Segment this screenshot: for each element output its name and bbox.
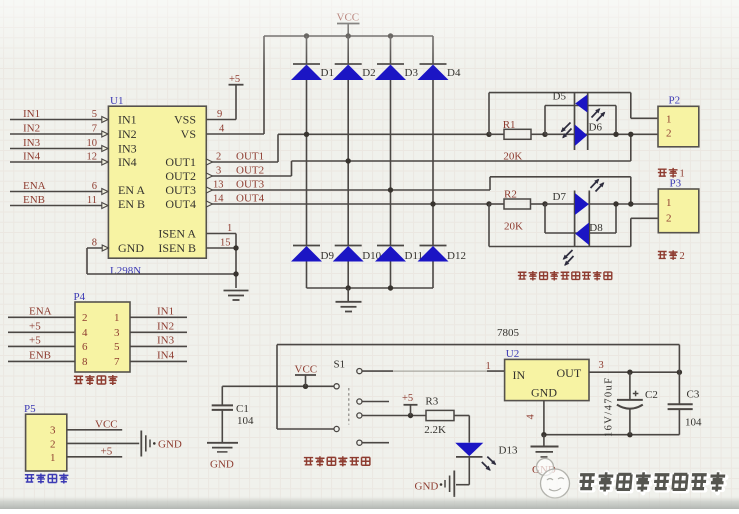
- watermark logo: [537, 459, 554, 476]
- wire segment: [292, 160, 631, 162]
- connector P2: [658, 106, 699, 147]
- wire switch stub: [362, 442, 389, 444]
- svg-text:D12: D12: [447, 250, 466, 262]
- svg-text:L298N: L298N: [110, 265, 141, 277]
- svg-text:GND: GND: [531, 386, 557, 400]
- wire D8 branch: [544, 204, 546, 233]
- svg-text:OUT4: OUT4: [236, 193, 265, 205]
- junction U2 gnd: [541, 432, 546, 437]
- wire net ENA: [10, 191, 102, 193]
- wire P2 pin1: [631, 117, 658, 119]
- IC U2 7805: [505, 359, 589, 400]
- svg-text:2: 2: [216, 152, 221, 163]
- wire ISEN B pin15: [206, 247, 236, 249]
- junction R1 right: [542, 132, 547, 137]
- wire P5 pin3 VCC: [67, 429, 122, 431]
- svg-text:7: 7: [114, 356, 120, 368]
- junction OUT1 column D1: [304, 132, 309, 137]
- wire segment: [87, 273, 236, 275]
- switch contact: [334, 384, 339, 389]
- svg-text:ENB: ENB: [29, 350, 51, 362]
- svg-text:3: 3: [114, 327, 120, 339]
- power +5 symbol: [229, 84, 244, 86]
- capacitor C3: [678, 372, 680, 404]
- wire D13 to ground: [468, 457, 470, 485]
- svg-text:6: 6: [82, 341, 88, 353]
- wire switch stub: [362, 401, 389, 403]
- wire segment: [235, 234, 237, 289]
- svg-text:P5: P5: [24, 403, 36, 415]
- watermark text: [580, 476, 596, 490]
- junction OUT2 to P2 pin2: [628, 132, 633, 137]
- wire P4 right pin 3: [130, 331, 187, 333]
- svg-text:P4: P4: [74, 291, 86, 303]
- svg-text:OUT3: OUT3: [236, 179, 265, 191]
- wire D5 branch: [544, 106, 546, 135]
- wire column D1: [306, 36, 308, 64]
- wire net OUT2: [206, 175, 291, 177]
- svg-text:2.2K: 2.2K: [424, 424, 446, 436]
- wire segment: [86, 248, 88, 274]
- svg-text:U2: U2: [506, 348, 519, 360]
- svg-text:S1: S1: [334, 358, 346, 370]
- wire loop down to P3 pin2: [488, 204, 490, 247]
- wire main through LEDs 2: [545, 203, 616, 205]
- connector P4: [75, 302, 130, 372]
- junction bus D1: [304, 33, 309, 38]
- junction R2 right: [542, 201, 547, 206]
- wire segment: [306, 262, 308, 289]
- wire segment: [432, 262, 434, 289]
- junction bus D11: [388, 285, 393, 290]
- wire VCC top bus: [264, 35, 433, 37]
- svg-text:R3: R3: [425, 395, 438, 407]
- svg-text:+5: +5: [29, 335, 41, 347]
- junction bus D2: [346, 33, 351, 38]
- svg-text:EN B: EN B: [118, 197, 145, 211]
- wire switch to U2 IN: [362, 370, 393, 372]
- wire P4 left pin 8: [8, 360, 75, 362]
- svg-text:1: 1: [114, 312, 120, 324]
- svg-text:1: 1: [666, 197, 672, 209]
- ground symbol D13 rotated: [453, 471, 455, 498]
- junction OUT2 column D2: [346, 158, 351, 163]
- junction C2 top: [627, 370, 632, 375]
- plus sign C2: [633, 393, 639, 395]
- svg-text:20K: 20K: [503, 151, 522, 163]
- svg-text:2: 2: [666, 213, 672, 225]
- svg-text:VCC: VCC: [295, 363, 318, 375]
- wire net IN1: [10, 119, 102, 121]
- wire VS pin4 to VCC bus: [206, 133, 264, 135]
- svg-text:R1: R1: [503, 119, 516, 131]
- svg-text:ENA: ENA: [29, 306, 52, 318]
- svg-text:D6: D6: [589, 121, 603, 133]
- svg-text:104: 104: [237, 415, 254, 427]
- wire segment: [432, 80, 434, 246]
- ground symbol U2: [543, 435, 545, 447]
- LED D6: [575, 125, 587, 147]
- svg-text:10: 10: [87, 138, 98, 149]
- wire segment: [390, 262, 392, 289]
- svg-text:IN2: IN2: [157, 321, 174, 333]
- annotation system power: [25, 475, 34, 482]
- LED cathode bars D7 D8: [574, 191, 576, 247]
- svg-text:GND: GND: [118, 241, 144, 255]
- wire main through LEDs: [545, 133, 616, 135]
- resistor R2: [489, 203, 504, 205]
- wire output ground line: [544, 434, 680, 436]
- svg-text:EN A: EN A: [118, 183, 145, 197]
- diode D11: [377, 245, 404, 247]
- svg-text:1: 1: [227, 223, 232, 234]
- wire U2 GND pin4: [543, 401, 545, 435]
- svg-text:2: 2: [680, 251, 685, 262]
- svg-text:IN3: IN3: [118, 142, 137, 156]
- wire P5 pin1 +5: [67, 456, 122, 458]
- junction VCC symbol: [303, 384, 308, 389]
- svg-text:VS: VS: [181, 127, 196, 141]
- wire VCC to switch: [222, 385, 334, 387]
- LED arrows D13: [487, 457, 495, 465]
- resistor R3: [426, 410, 454, 420]
- svg-text:8: 8: [82, 356, 88, 368]
- LED cathode bars D5 D6: [574, 92, 576, 150]
- svg-text:IN3: IN3: [157, 335, 175, 347]
- svg-text:9: 9: [217, 109, 222, 120]
- svg-text:3: 3: [216, 166, 221, 177]
- capacitor C1: [221, 386, 223, 405]
- connector P3: [658, 189, 699, 233]
- svg-text:4: 4: [526, 414, 537, 420]
- svg-text:1: 1: [50, 452, 56, 464]
- ground symbol U1: [224, 290, 249, 292]
- wire net OUT3: [206, 189, 490, 191]
- switch contact: [334, 426, 339, 431]
- pin 10 arrow: [102, 146, 108, 152]
- svg-text:C1: C1: [236, 403, 249, 415]
- wire P4 right pin 1: [130, 316, 187, 318]
- LED arrows D7: [591, 180, 599, 189]
- svg-text:GND: GND: [158, 438, 182, 450]
- junction GND loop: [233, 271, 238, 276]
- wire segment: [490, 176, 631, 178]
- svg-text:3: 3: [50, 424, 56, 436]
- junction C2 bottom: [627, 432, 632, 437]
- svg-text:6: 6: [92, 181, 97, 192]
- LED D5: [575, 95, 587, 113]
- svg-text:GND: GND: [210, 459, 234, 471]
- svg-text:IN2: IN2: [118, 127, 137, 141]
- svg-text:+5: +5: [229, 74, 240, 85]
- svg-text:U1: U1: [110, 95, 123, 107]
- svg-text:2: 2: [82, 312, 88, 324]
- diode D9: [293, 245, 320, 247]
- power VCC symbol: [337, 23, 360, 25]
- svg-text:C2: C2: [645, 389, 658, 401]
- junction D-branch2: [613, 201, 618, 206]
- wire +5 feedback line: [277, 344, 679, 346]
- wire column D3: [390, 36, 392, 64]
- wire U2 OUT: [589, 371, 679, 373]
- svg-text:C3: C3: [687, 388, 700, 400]
- svg-text:4: 4: [82, 327, 88, 339]
- svg-text:ISEN B: ISEN B: [158, 241, 196, 255]
- wire VSS pin9 to +5: [206, 119, 236, 121]
- junction OUT3 to P3 pin1: [628, 201, 633, 206]
- annotation motor2: [658, 251, 667, 258]
- ground symbol P5: [140, 431, 142, 457]
- annotation power select switch: [304, 458, 313, 465]
- svg-text:12: 12: [87, 152, 98, 163]
- wire P4 right pin 5: [130, 345, 187, 347]
- svg-text:3: 3: [599, 360, 604, 371]
- diode D3: [377, 63, 404, 65]
- wire net IN3: [10, 148, 102, 150]
- LED arrows D8: [564, 250, 573, 259]
- junction bus D10: [346, 285, 351, 290]
- svg-text:IN1: IN1: [23, 108, 40, 120]
- svg-text:OUT3: OUT3: [165, 183, 196, 197]
- power VCC symbol 2: [305, 375, 307, 386]
- pin 14 arrow: [206, 201, 212, 207]
- junction +5 rail: [408, 413, 413, 418]
- wire segment: [347, 80, 349, 246]
- wire segment: [235, 85, 237, 120]
- wire column D4: [432, 36, 434, 64]
- svg-text:1: 1: [486, 361, 491, 372]
- svg-text:2: 2: [50, 438, 56, 450]
- pin 5 arrow: [102, 117, 108, 123]
- svg-text:20K: 20K: [504, 221, 523, 233]
- svg-text:5: 5: [92, 109, 97, 120]
- wire P4 left pin 6: [8, 345, 75, 347]
- svg-text:D5: D5: [553, 91, 567, 103]
- wire segment: [277, 134, 279, 162]
- wire P4 left pin 2: [8, 316, 75, 318]
- svg-text:7: 7: [92, 124, 97, 135]
- svg-text:IN1: IN1: [118, 113, 137, 127]
- wire main after LEDs: [616, 203, 658, 205]
- svg-text:13: 13: [213, 180, 224, 191]
- switch linkage dashed: [348, 388, 350, 425]
- junction ISENB: [233, 245, 238, 250]
- svg-text:OUT2: OUT2: [165, 169, 196, 183]
- wire switch to +5 rail: [362, 415, 426, 417]
- pin 11 arrow: [102, 203, 108, 209]
- wire bottom bus: [307, 287, 434, 289]
- svg-text:P2: P2: [669, 95, 681, 107]
- pin 7 arrow: [102, 131, 108, 137]
- svg-text:D9: D9: [321, 250, 335, 262]
- svg-text:4: 4: [219, 124, 225, 135]
- svg-text:11: 11: [87, 195, 97, 206]
- resistor R1: [489, 133, 504, 135]
- capacitor C2 electrolytic: [629, 372, 631, 400]
- LED arrows D6: [592, 109, 600, 118]
- svg-text:IN4: IN4: [118, 155, 137, 169]
- svg-text:16V/470uF: 16V/470uF: [604, 377, 615, 437]
- wire segment: [263, 36, 265, 134]
- IC U1 L298N body: [108, 106, 206, 258]
- wire net OUT1: [206, 161, 278, 163]
- ground symbol C1: [207, 442, 238, 444]
- wire segment: [390, 80, 392, 246]
- wire net ENB: [10, 205, 102, 207]
- svg-text:IN2: IN2: [23, 123, 40, 135]
- diode D2: [335, 63, 362, 65]
- svg-text:OUT2: OUT2: [236, 165, 264, 177]
- svg-text:OUT4: OUT4: [165, 197, 196, 211]
- wire loop up to P2 pin1: [488, 93, 490, 135]
- annotation motor1: [658, 169, 667, 176]
- svg-text:ENB: ENB: [23, 194, 45, 206]
- svg-text:+5: +5: [402, 393, 413, 404]
- svg-text:+5: +5: [29, 321, 41, 333]
- power +5 symbol 2: [410, 405, 412, 416]
- wire net IN4: [10, 161, 102, 163]
- wire GND pin8 of U1: [87, 247, 108, 249]
- svg-text:R2: R2: [504, 188, 517, 200]
- svg-text:2: 2: [666, 128, 672, 140]
- svg-text:7805: 7805: [497, 327, 520, 339]
- pin 13 arrow: [206, 187, 212, 193]
- wire P5 pin2 GND: [67, 442, 139, 444]
- pin 3 arrow: [206, 173, 212, 179]
- pin 2 arrow: [206, 159, 212, 165]
- junction C3 top: [677, 370, 682, 375]
- wire segment: [278, 133, 489, 135]
- wire main after LEDs: [616, 133, 658, 135]
- wire R3 to D13: [468, 416, 470, 443]
- wire segment: [306, 80, 308, 246]
- diode D1: [293, 63, 320, 65]
- wire segment: [291, 161, 293, 176]
- wire column D2: [347, 36, 349, 64]
- wire net IN2: [10, 133, 102, 135]
- diode D4: [420, 63, 447, 65]
- svg-text:P3: P3: [670, 178, 682, 190]
- svg-text:IN3: IN3: [23, 137, 41, 149]
- wire net OUT4: [206, 203, 489, 205]
- svg-text:IN: IN: [513, 368, 526, 382]
- svg-text:5: 5: [114, 341, 120, 353]
- LED D7: [575, 193, 589, 215]
- svg-text:104: 104: [685, 417, 702, 429]
- svg-text:1: 1: [666, 114, 672, 126]
- LED D13: [455, 443, 483, 456]
- LED arrows D5: [562, 123, 571, 132]
- LED D8: [575, 223, 589, 246]
- node A motor1: [486, 132, 491, 137]
- node A motor2: [486, 201, 491, 206]
- svg-text:VCC: VCC: [95, 418, 118, 430]
- diode D10: [335, 245, 362, 247]
- svg-text:IN1: IN1: [157, 306, 174, 318]
- junction OUT4 column D4: [430, 201, 435, 206]
- svg-text:VSS: VSS: [174, 113, 196, 127]
- pin 8 arrow: [102, 245, 108, 251]
- junction D-branch: [613, 132, 618, 137]
- svg-text:D8: D8: [589, 222, 603, 234]
- svg-text:OUT: OUT: [557, 366, 582, 380]
- svg-text:8: 8: [92, 238, 97, 249]
- diode D12: [420, 245, 447, 247]
- pin 6 arrow: [102, 189, 108, 195]
- wire segment: [347, 262, 349, 289]
- svg-text:D7: D7: [553, 191, 567, 203]
- connector P5: [26, 414, 67, 471]
- pin 12 arrow: [102, 159, 108, 165]
- svg-text:ENA: ENA: [23, 180, 46, 192]
- wire P3 pin2: [631, 217, 659, 219]
- svg-text:+5: +5: [101, 445, 113, 457]
- wire P4 right pin 7: [130, 360, 187, 362]
- svg-text:OUT1: OUT1: [236, 151, 264, 163]
- junction OUT3 column D3: [388, 187, 393, 192]
- wire ISEN A pin1: [206, 233, 236, 235]
- svg-text:OUT1: OUT1: [165, 155, 196, 169]
- svg-text:D13: D13: [499, 444, 518, 456]
- wire segment: [630, 134, 632, 161]
- annotation motor control: [74, 376, 83, 383]
- svg-text:15: 15: [220, 238, 231, 249]
- wire segment: [630, 177, 632, 204]
- svg-text:IN4: IN4: [23, 151, 41, 163]
- wire segment: [489, 177, 491, 190]
- svg-text:ISEN A: ISEN A: [158, 226, 196, 240]
- annotation LED direction indicator: [518, 272, 527, 279]
- svg-text:GND: GND: [415, 480, 439, 492]
- ground symbol bridge: [347, 288, 349, 302]
- junction bus D3: [388, 33, 393, 38]
- wire +5 to top line: [678, 345, 680, 373]
- svg-text:14: 14: [213, 194, 224, 205]
- svg-text:IN4: IN4: [157, 350, 175, 362]
- wire P4 left pin 4: [8, 331, 75, 333]
